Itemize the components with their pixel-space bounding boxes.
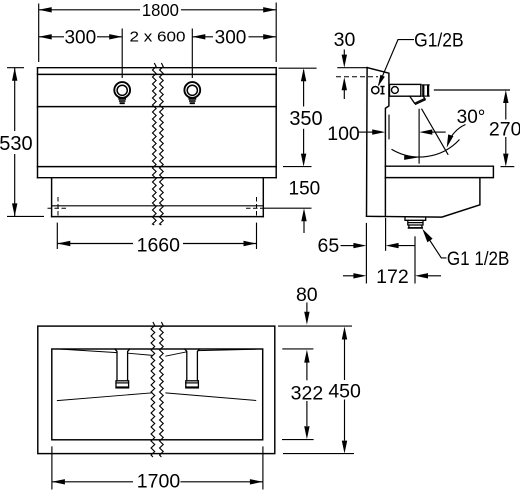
svg-text:G1 1/2B: G1 1/2B	[447, 248, 510, 270]
svg-text:30°: 30°	[457, 107, 486, 128]
svg-text:100: 100	[327, 123, 360, 145]
svg-text:350: 350	[289, 108, 322, 130]
svg-text:G1/2B: G1/2B	[414, 31, 464, 52]
svg-text:322: 322	[291, 382, 324, 404]
svg-text:80: 80	[296, 284, 318, 306]
svg-text:1700: 1700	[137, 470, 181, 492]
svg-text:530: 530	[0, 133, 33, 155]
svg-text:450: 450	[328, 381, 361, 403]
svg-text:30: 30	[334, 29, 356, 51]
svg-text:172: 172	[376, 266, 409, 288]
svg-text:300: 300	[215, 28, 247, 49]
svg-text:1800: 1800	[142, 0, 179, 20]
svg-text:150: 150	[289, 179, 321, 200]
svg-text:300: 300	[64, 28, 96, 49]
svg-text:2 x 600: 2 x 600	[130, 30, 186, 46]
svg-text:1660: 1660	[137, 234, 181, 256]
svg-text:65: 65	[318, 235, 340, 257]
svg-text:270: 270	[489, 118, 520, 140]
